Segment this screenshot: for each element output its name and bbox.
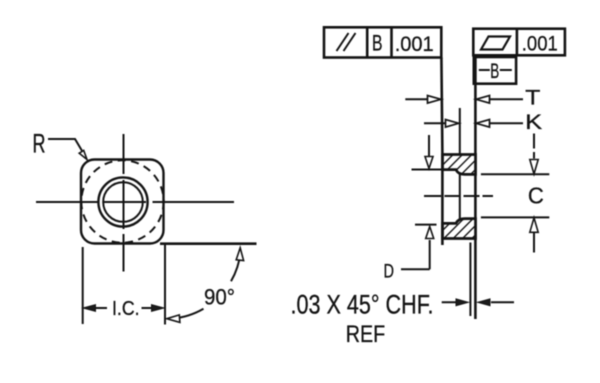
svg-text:.001: .001 <box>395 32 434 56</box>
svg-text:K: K <box>525 111 542 134</box>
svg-text:REF: REF <box>346 321 386 348</box>
svg-text:B: B <box>372 31 383 56</box>
svg-text:I.C.: I.C. <box>112 297 140 320</box>
svg-text:D: D <box>384 261 395 283</box>
svg-text:.001: .001 <box>522 32 558 56</box>
svg-text:C: C <box>528 183 544 209</box>
svg-text:R: R <box>33 128 46 158</box>
svg-text:B: B <box>490 59 499 83</box>
svg-text:.03 X 45° CHF.: .03 X 45° CHF. <box>291 289 434 319</box>
svg-text:90°: 90° <box>204 285 235 310</box>
svg-text:T: T <box>525 86 541 109</box>
